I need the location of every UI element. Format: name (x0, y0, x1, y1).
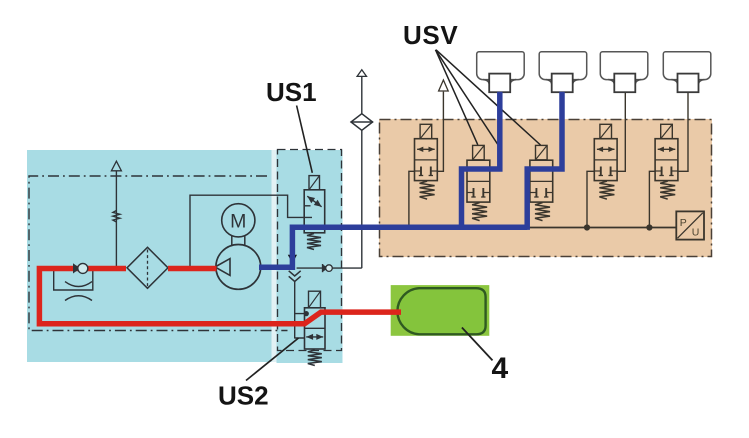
consumer 1 (477, 52, 525, 80)
consumer 4 (663, 52, 711, 80)
US station dashed border (278, 150, 342, 351)
junction node on US2 inlet (304, 311, 309, 316)
svg-text:USV: USV (403, 20, 458, 50)
arrow mark on blue drop line (291, 245, 293, 257)
tank 4 outer green rect (391, 285, 490, 336)
light seam between blocks (272, 150, 277, 362)
relief/vent line with triangle (115, 171, 117, 269)
US1/US2 station cyan block (277, 150, 343, 363)
red return line main loop (39, 269, 401, 324)
pump triangle (215, 259, 230, 276)
valve US1 solenoid (309, 176, 320, 190)
svg-text:M: M (230, 210, 246, 232)
bypass loop rectangle (54, 269, 93, 291)
valve V4 (4th manifold valve) (600, 124, 612, 138)
tank 4 capsule (397, 288, 485, 334)
svg-text:P: P (680, 217, 687, 229)
consumer 3 (600, 52, 648, 80)
valve V1 left line to bus (409, 171, 415, 225)
wire: junction to vent line (297, 267, 362, 269)
blue line to consumer 2 (527, 92, 562, 230)
svg-text:4: 4 (492, 352, 509, 385)
pressure bus wire (black part) (525, 227, 676, 229)
motor-pump coupling (231, 236, 233, 246)
blue line to consumer 1 (462, 92, 500, 230)
svg-text:US2: US2 (218, 381, 269, 411)
blue pressure line pump to manifold (259, 227, 527, 267)
line down to US2 (295, 281, 307, 339)
valve V4 left line to bus (587, 171, 595, 227)
valve USV-b (3rd manifold valve) (536, 145, 548, 159)
valve US2 spring (308, 350, 322, 366)
valve US1 body (304, 190, 325, 233)
consumer 2 (539, 52, 587, 80)
valve V5 left line to bus (649, 171, 655, 227)
valve V1 (leftmost manifold valve) (420, 124, 432, 138)
valve V5 line up to consumer 4 (678, 92, 688, 172)
mini spring on relief line (113, 211, 120, 223)
power unit dash-dot border (29, 176, 288, 331)
vent line vertical (361, 76, 363, 268)
valve manifold tan block (379, 119, 712, 257)
svg-text:U: U (692, 227, 700, 239)
power unit cyan block (27, 150, 272, 362)
pump enclosure / drain line to US1 (190, 195, 312, 266)
throttle arcs (65, 282, 92, 287)
valve US2 body (305, 308, 326, 349)
pump circle (216, 245, 261, 290)
valve USV-a (2nd manifold valve) (473, 145, 485, 159)
valve V1 vent line with arrow (437, 92, 443, 172)
vent arrow triangle (357, 70, 366, 77)
valve US1 spring (307, 234, 321, 250)
manifold dash-dot border (380, 120, 712, 257)
measuring coupling diamond (351, 114, 373, 131)
valve V5 (5th manifold valve) (661, 124, 673, 138)
valve US2 solenoid (309, 291, 321, 308)
pressure transducer P/U (676, 211, 704, 239)
check valve on red line (73, 263, 80, 273)
valve V4 line up to consumer 3 (617, 92, 625, 172)
motor M1 circle (222, 204, 255, 237)
svg-text:US1: US1 (266, 77, 317, 107)
check valve chevrons below pump junction (289, 271, 301, 282)
check valve ball and seat (322, 264, 324, 272)
filter diamond (127, 247, 168, 288)
